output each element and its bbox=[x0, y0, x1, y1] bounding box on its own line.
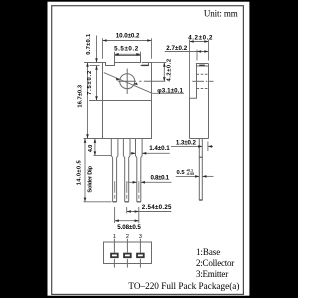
side dim 4.2 line bbox=[190, 41, 209, 43]
svg-text:-0.05: -0.05 bbox=[186, 172, 194, 176]
arrows dim 4.2 right bbox=[163, 63, 166, 67]
scan black bar bottom bbox=[0, 296, 298, 298]
arrows dim 1.4 bbox=[131, 152, 135, 155]
svg-text:TO–220 Full Pack Package(a): TO–220 Full Pack Package(a) bbox=[128, 281, 239, 291]
svg-text:Unit: mm: Unit: mm bbox=[204, 8, 238, 18]
svg-text:2:Collector: 2:Collector bbox=[196, 258, 234, 268]
front view right notch bbox=[141, 63, 149, 66]
bottom view body rect bbox=[104, 242, 152, 264]
lead 2 tip cap bbox=[125, 201, 129, 203]
arrows dim 10.0 bbox=[103, 39, 107, 42]
bottom view pin center lines bbox=[113, 239, 115, 253]
ext line body top left bbox=[84, 62, 103, 64]
hole crosshair vertical bbox=[126, 69, 128, 94]
svg-text:0.7±0.1: 0.7±0.1 bbox=[86, 33, 92, 55]
dim 5.5 line bbox=[115, 53, 141, 55]
drawing frame border bbox=[52, 6, 244, 295]
svg-text:2.54±0.25: 2.54±0.25 bbox=[142, 204, 172, 211]
centerline ext under 4.2 dim bbox=[144, 80, 166, 82]
side view lead bbox=[199, 139, 202, 201]
svg-text:7.5±0.2: 7.5±0.2 bbox=[87, 71, 93, 95]
side view left edge and step bbox=[190, 64, 197, 139]
side view top cap line 2 bbox=[196, 65, 209, 67]
dim 4.0 line bbox=[94, 139, 96, 156]
dim 10.0 ext lines bbox=[102, 38, 104, 58]
front view body outline bbox=[103, 63, 152, 139]
dim 4.2 right ext line bbox=[152, 62, 166, 64]
dia leader underline bbox=[152, 92, 184, 94]
arrows dim 14.0 bbox=[84, 139, 87, 143]
hole crosshair horizontal bbox=[118, 80, 136, 82]
lead 1 tip cap bbox=[113, 201, 117, 203]
arrows dim 0.7 bbox=[95, 58, 98, 62]
svg-text:14.0±0.5: 14.0±0.5 bbox=[76, 160, 82, 186]
side dim 2.7 ext line bbox=[196, 50, 198, 61]
arrows side dim 0.5 bbox=[195, 175, 199, 178]
centerline dash to side view bbox=[139, 80, 141, 82]
lead 1 inner dash bbox=[114, 181, 116, 193]
front view left notch bbox=[106, 63, 115, 66]
svg-text:3: 3 bbox=[139, 234, 142, 240]
svg-text:4.0: 4.0 bbox=[88, 145, 94, 153]
scan black bar right bbox=[249, 0, 298, 298]
svg-text:3:Emitter: 3:Emitter bbox=[196, 269, 228, 279]
front view top tab bbox=[115, 56, 141, 63]
side lead solder tick bbox=[199, 156, 202, 158]
dim 14.0 line bbox=[84, 139, 86, 202]
svg-text:1.3±0.2: 1.3±0.2 bbox=[176, 140, 197, 147]
arrows dim 5.5 bbox=[115, 53, 119, 56]
svg-text:2.7±0.2: 2.7±0.2 bbox=[166, 45, 187, 52]
arrows dia leader bbox=[116, 78, 120, 81]
bottom view lead 3 section bbox=[137, 254, 144, 258]
svg-text:0.8±0.1: 0.8±0.1 bbox=[151, 175, 170, 182]
dim 16.7 line bbox=[87, 63, 89, 139]
side dim 1.3 ext tick bbox=[207, 142, 209, 152]
svg-text:5.08±0.5: 5.08±0.5 bbox=[117, 224, 141, 231]
side view dark mark in cap bbox=[199, 65, 205, 66]
ext line lead end bbox=[84, 201, 112, 203]
front lead 2 bbox=[123, 139, 130, 202]
dim 10.0 line bbox=[103, 40, 152, 42]
side dim 0.5 lines bbox=[176, 175, 200, 177]
svg-text:φ3.1±0.1: φ3.1±0.1 bbox=[157, 87, 183, 94]
arrows side dim 1.3 bbox=[198, 145, 202, 148]
front view internal step line with left extension bbox=[89, 100, 152, 102]
dim 7.5 line bbox=[96, 66, 98, 101]
arrows dim 2.54 bbox=[127, 210, 131, 213]
svg-text:4.2±0.2: 4.2±0.2 bbox=[166, 59, 172, 82]
side dim 2.7 line bbox=[165, 51, 209, 53]
arrows dim 4.0 bbox=[94, 139, 97, 143]
dim 5.5 ext lines bbox=[114, 52, 116, 56]
dim 2.54 line bbox=[127, 211, 172, 213]
ext line body bottom bbox=[84, 138, 103, 140]
bottom view lead 2 section bbox=[124, 254, 131, 258]
mounting hole bbox=[120, 74, 135, 89]
lead 3 inner dash bbox=[138, 181, 140, 193]
dim 5.08 line bbox=[115, 220, 139, 222]
svg-text:16.7±0.3: 16.7±0.3 bbox=[77, 84, 83, 107]
ext line neck bbox=[94, 155, 112, 157]
arrows dim 7.5 bbox=[95, 96, 98, 100]
arrows dim 16.7 bbox=[86, 63, 89, 67]
front lead 3 bbox=[136, 139, 143, 202]
lead center ext lines bbox=[114, 207, 116, 223]
svg-text:4.2±0.2: 4.2±0.2 bbox=[188, 34, 213, 41]
scan black bar top bbox=[0, 0, 298, 2]
svg-text:10.0±0.2: 10.0±0.2 bbox=[116, 33, 140, 40]
svg-text:5.5±0.2: 5.5±0.2 bbox=[114, 46, 139, 53]
dim 4.2 right line bbox=[163, 63, 165, 82]
side dim 1.3 lines bbox=[171, 145, 202, 147]
arrows side dim 2.7 bbox=[197, 50, 201, 53]
svg-text:1: 1 bbox=[113, 234, 116, 240]
dim 1.4 lines bbox=[130, 152, 136, 154]
svg-text:Solder Dip: Solder Dip bbox=[87, 166, 93, 193]
scan black bar left bbox=[0, 0, 48, 298]
front view right notch dark bottom bbox=[142, 64, 149, 66]
side view top cap line 1 bbox=[196, 63, 209, 65]
dim 0.8 lines bbox=[128, 181, 137, 183]
svg-text:1.4±0.1: 1.4±0.1 bbox=[149, 145, 170, 152]
lead 3 tip cap bbox=[137, 201, 141, 203]
side view right edge bbox=[208, 64, 210, 139]
dia leader line bbox=[104, 73, 153, 94]
svg-text:0.5: 0.5 bbox=[177, 170, 186, 176]
side view hidden hole top bbox=[197, 73, 209, 75]
svg-text:1:Base: 1:Base bbox=[196, 247, 220, 257]
arrows side dim 4.2 bbox=[190, 40, 194, 43]
front lead 1 bbox=[111, 139, 118, 202]
side lead tip cap bbox=[199, 199, 202, 201]
side dim 4.2 ext lines bbox=[189, 40, 191, 99]
arrows dim 5.08 bbox=[115, 219, 119, 222]
side view bottom edge bbox=[190, 138, 209, 140]
bottom view lead 1 section bbox=[111, 254, 118, 258]
lead 2 inner dash bbox=[126, 181, 128, 193]
side view centerline dash-dot bbox=[192, 80, 204, 82]
side view hidden hole bottom bbox=[197, 88, 209, 90]
ext line notch level bbox=[90, 65, 100, 67]
arrows dim 0.8 bbox=[133, 181, 137, 184]
dim 0.7 vertical line bbox=[96, 36, 98, 63]
notch white gaps in top edge bbox=[106, 62, 142, 64]
svg-text:2: 2 bbox=[126, 234, 129, 240]
